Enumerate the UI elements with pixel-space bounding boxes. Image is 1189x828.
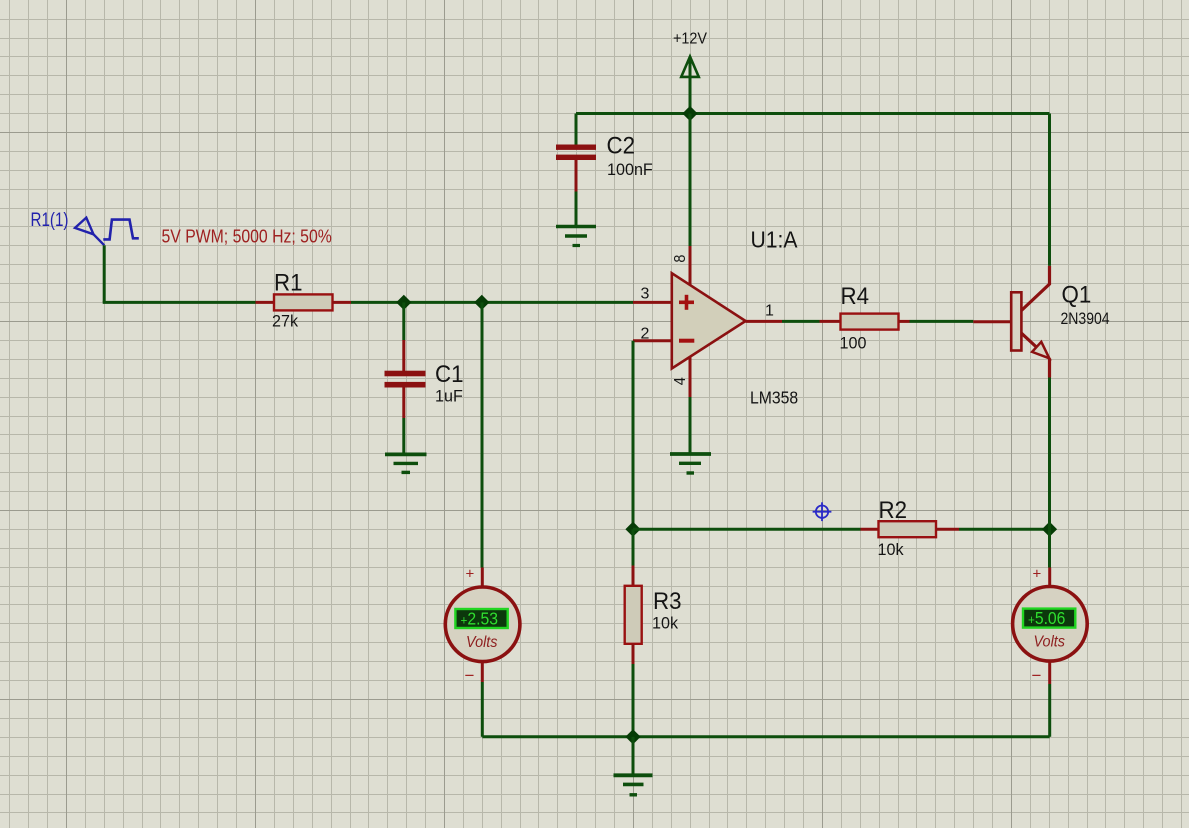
voltmeter V2 pin + (red) [1048,568,1051,588]
wire: input rail left of R1 [103,301,256,304]
input generator probe (blue) [75,218,104,246]
transistor Q1 body bar [1011,292,1021,350]
svg-text:LM358: LM358 [750,388,798,408]
wire: R2 row from junction (green) [633,528,861,531]
svg-text:R2: R2 [879,496,908,523]
ground (bottom) [614,775,653,795]
svg-text:5V PWM; 5000 Hz; 50%: 5V PWM; 5000 Hz; 50% [161,225,331,246]
svg-text:+12V: +12V [673,30,708,48]
Q1 emitter [1021,333,1049,377]
svg-text:10k: 10k [652,613,679,632]
svg-text:R3: R3 [653,587,682,614]
svg-text:Q1: Q1 [1062,281,1092,308]
ground (op-amp pin 4) [670,454,711,473]
PWM waveform glyph [103,220,139,240]
wire: +12V power rail horizontal [576,112,1050,115]
svg-text:27k: 27k [272,311,299,330]
junction node at emitter column [1042,522,1057,537]
junction node on bottom rail [625,729,640,744]
capacitor C1 [385,340,426,418]
pin 2 stub (red) [633,339,672,342]
svg-text:R1: R1 [274,269,303,296]
capacitor C2 [556,145,596,192]
wire: generator vertical (green) [103,245,106,302]
pin 8 stub (red) [689,246,692,286]
svg-text:Volts: Volts [1034,633,1066,651]
wire: junction to R3 (green) [632,529,635,565]
wire: opamp pin8 vertical (green) [689,114,692,247]
pin 4 stub (red) [689,357,692,398]
power +12V symbol [681,57,699,114]
op-amp U1 body [672,273,746,368]
crosshair origin marker (blue) [813,502,832,521]
wire: C1 to ground (green) [402,418,405,453]
resistor R4 [820,314,910,330]
ground (C1) [385,454,427,472]
svg-text:Volts: Volts [466,633,498,651]
svg-text:U1:A: U1:A [750,227,797,253]
svg-text:2: 2 [641,325,650,342]
wire: R3 to bottom rail (green) [632,664,635,737]
svg-text:R4: R4 [841,282,870,309]
voltmeter V2 body [1013,587,1088,662]
resistor R3 [625,566,642,665]
junction node at voltmeter branch [474,295,489,310]
voltmeter V1 pin - (red) [481,662,484,682]
svg-text:2N3904: 2N3904 [1061,310,1111,328]
wire: C1 top (green) [402,302,405,340]
wire: collector to power rail (green) [1048,114,1051,266]
voltmeter V1 body [445,587,520,662]
wire: voltmeter V1 branch (green) [481,302,484,567]
svg-text:1uF: 1uF [435,386,463,405]
svg-text:10k: 10k [878,540,905,559]
svg-text:−: − [465,666,475,685]
wire: R4 to Q1 base (green) [910,320,974,323]
wire: op-amp output to R4 (green) [782,320,820,323]
svg-text:100: 100 [840,333,867,352]
wire: pin4 to ground (green) [689,397,692,453]
junction node on power rail [682,106,697,121]
op-amp minus symbol [679,339,694,343]
svg-text:1: 1 [765,303,774,320]
voltmeter V2 display [1023,609,1075,628]
wire: emitter down to junction (green) [1048,378,1051,530]
wire: junction to voltmeter V2 (green) [1048,529,1051,567]
svg-text:+: + [466,566,475,583]
svg-text:4: 4 [671,377,689,386]
junction node at R2/R3 [625,522,640,537]
ground (C2) [556,227,596,246]
svg-text:8: 8 [671,255,689,263]
Q1 collector [1021,266,1049,311]
voltmeter V1 display [455,609,507,628]
voltmeter V1 pin + (red) [481,568,484,588]
wire: bottom rail (green) [482,735,1049,738]
svg-text:−: − [1032,666,1042,685]
wire: R1 to op-amp pin3 [351,301,633,304]
wire: pin2 feedback vertical (green) [632,341,635,529]
svg-text:C2: C2 [607,132,636,159]
wire: C2 top (green) [575,114,578,146]
wire: bottom rail to ground (green) [632,737,635,774]
voltmeter V2 pin - (red) [1048,661,1051,684]
svg-text:3: 3 [641,286,650,303]
wire: V1 to bottom rail (green) [481,682,484,737]
svg-text:R1(1): R1(1) [31,208,69,230]
wire: R2 to emitter node (green) [959,528,1050,531]
wire: V2 to bottom rail (green) [1048,684,1051,737]
resistor R2 [861,521,960,537]
resistor R1 [256,294,352,310]
Q1 base stub (red) [973,320,1011,323]
svg-text:C1: C1 [435,360,464,387]
svg-text:100nF: 100nF [607,159,653,178]
svg-text:+: + [1033,566,1042,583]
pin 1 output stub (red) [746,320,782,323]
pin 3 stub (red) [633,301,672,304]
op-amp plus symbol [679,295,694,310]
wire: C2 to ground (green) [575,192,578,226]
junction node at C1 branch [396,295,411,310]
